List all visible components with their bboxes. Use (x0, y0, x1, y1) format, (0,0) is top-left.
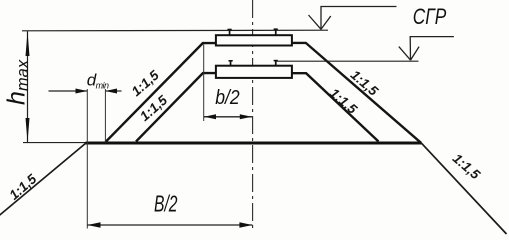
svg-text:b/2: b/2 (215, 87, 240, 109)
svg-text:СГР: СГР (413, 4, 447, 29)
svg-text:1:1,5: 1:1,5 (137, 92, 170, 124)
svg-text:1:1,5: 1:1,5 (327, 85, 360, 117)
svg-text:В/2: В/2 (154, 191, 178, 217)
svg-text:hmax: hmax (3, 59, 33, 105)
svg-text:dmin: dmin (87, 71, 109, 91)
